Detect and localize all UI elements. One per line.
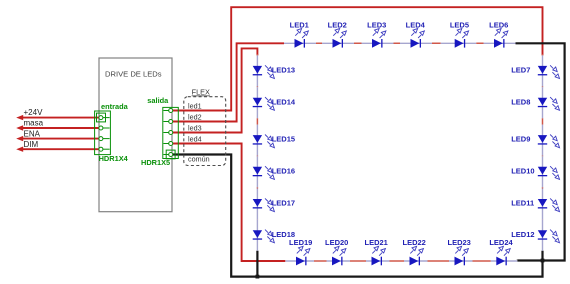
connector FLEX cable box	[184, 88, 226, 166]
LED LED24	[489, 238, 517, 265]
svg-text:+24V: +24V	[24, 108, 44, 117]
svg-text:LED2: LED2	[328, 20, 347, 29]
svg-text:LED23: LED23	[448, 238, 471, 247]
svg-text:ENA: ENA	[24, 129, 41, 138]
svg-text:LED1: LED1	[290, 20, 309, 29]
wire input DIM	[21, 148, 99, 150]
LED LED1	[284, 20, 316, 47]
wire comun LED18 cathode branch	[256, 240, 258, 277]
wire input ENA	[21, 138, 99, 140]
wire net led1: salida pin1 to top ring and LED7 anode	[173, 7, 543, 110]
LED LED22	[403, 238, 428, 265]
svg-text:LED20: LED20	[325, 238, 348, 247]
svg-text:LED19: LED19	[289, 238, 312, 247]
junction comun ring bottom-right	[541, 259, 545, 263]
svg-text:led1: led1	[188, 102, 202, 111]
svg-text:LED21: LED21	[365, 238, 388, 247]
wire net led2: salida pin2 to LED1 anode and top row	[173, 43, 284, 121]
wire left column interconnects	[256, 54, 258, 240]
svg-text:LED6: LED6	[489, 20, 508, 29]
svg-text:LED5: LED5	[450, 20, 469, 29]
svg-text:LED15: LED15	[272, 135, 295, 144]
wire right column interconnects	[542, 54, 544, 240]
junction comun LED18 branch	[256, 275, 260, 279]
LED LED12	[511, 220, 559, 251]
svg-text:LED16: LED16	[272, 166, 295, 175]
LED LED7	[511, 55, 559, 86]
LED LED9	[511, 125, 559, 156]
svg-text:LED8: LED8	[511, 97, 530, 106]
LED LED6	[484, 20, 516, 47]
svg-text:entrada: entrada	[101, 102, 129, 111]
svg-text:LED14: LED14	[272, 97, 296, 106]
svg-text:LED11: LED11	[511, 199, 534, 208]
wire comun LED6 cathode to right edge	[514, 43, 565, 260]
svg-text:LED17: LED17	[272, 199, 295, 208]
svg-text:HDR1X5: HDR1X5	[141, 158, 170, 167]
wire input masa	[21, 127, 99, 129]
LED LED11	[511, 189, 559, 220]
svg-text:LED24: LED24	[489, 238, 513, 247]
svg-text:DIM: DIM	[24, 140, 39, 149]
LED LED17	[253, 189, 295, 220]
svg-text:led2: led2	[188, 113, 202, 122]
svg-text:LED3: LED3	[367, 20, 386, 29]
svg-text:LED7: LED7	[511, 66, 530, 75]
LED LED10	[511, 156, 559, 187]
svg-text:LED10: LED10	[511, 166, 534, 175]
LED LED20	[325, 238, 350, 265]
svg-text:masa: masa	[24, 119, 44, 128]
LED LED2	[322, 20, 354, 47]
svg-text:DRIVE DE LEDs: DRIVE DE LEDs	[105, 70, 162, 79]
LED LED15	[253, 125, 295, 156]
svg-text:FLEX: FLEX	[192, 88, 210, 97]
connector J2 salida HDR1X5	[141, 96, 178, 167]
LED LED23	[448, 238, 473, 265]
LED LED3	[362, 20, 394, 47]
wire input +24V	[21, 117, 99, 119]
svg-text:LED13: LED13	[272, 66, 295, 75]
svg-text:HDR1X4: HDR1X4	[99, 154, 129, 163]
driver box U1 DRIVE DE LEDs	[99, 58, 172, 212]
LED LED21	[365, 238, 390, 265]
svg-text:LED9: LED9	[511, 135, 530, 144]
wire net led3: salida pin3 to LED13 anode	[173, 48, 258, 132]
LED LED14	[253, 87, 296, 118]
wire net led4: salida pin4 to LED19 anode	[173, 144, 285, 262]
svg-text:led4: led4	[188, 135, 202, 144]
LED LED16	[253, 156, 295, 187]
LED LED4	[400, 20, 432, 47]
LED LED18	[253, 220, 295, 251]
LED LED5	[441, 20, 477, 47]
svg-text:LED4: LED4	[406, 20, 426, 29]
wire top row interconnects	[284, 42, 514, 44]
LED LED19	[286, 238, 315, 265]
svg-text:salida: salida	[147, 96, 169, 105]
svg-text:LED12: LED12	[511, 230, 534, 239]
svg-text:común: común	[188, 154, 210, 163]
wire bottom row interconnects	[285, 260, 516, 262]
svg-text:LED22: LED22	[403, 238, 426, 247]
svg-text:led3: led3	[188, 124, 202, 133]
LED LED8	[511, 87, 559, 118]
connector J1 entrada HDR1X4	[95, 102, 129, 163]
LED LED13	[253, 55, 295, 86]
wire net comun: salida pin5 to bottom ring (black)	[173, 155, 543, 277]
